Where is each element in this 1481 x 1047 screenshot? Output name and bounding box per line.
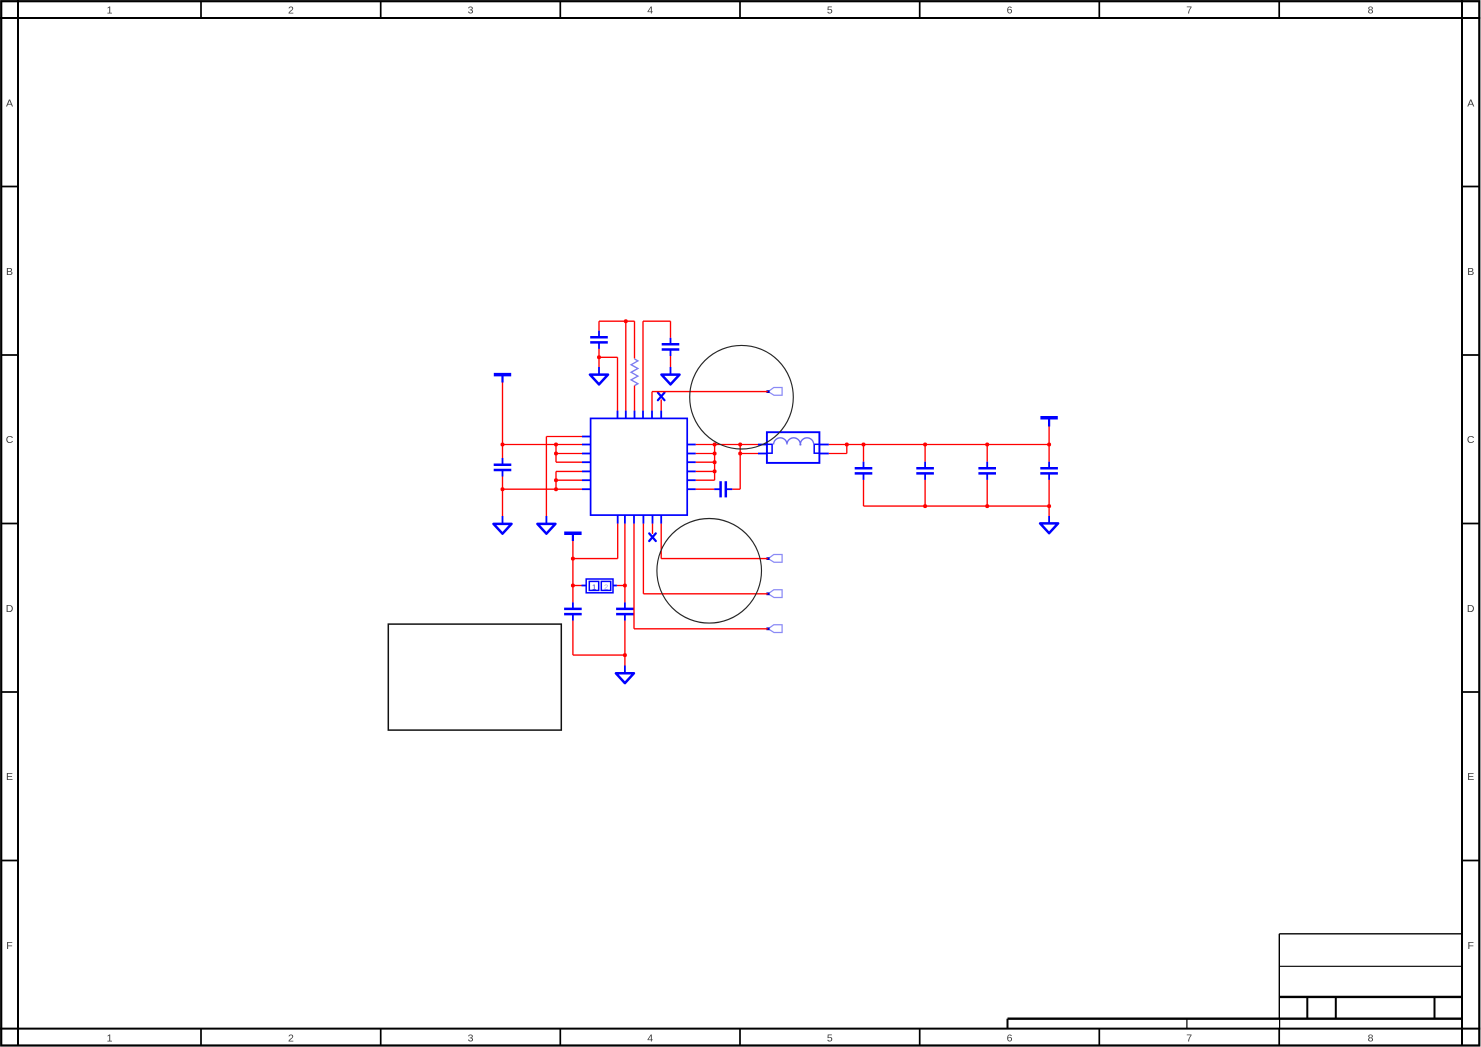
svg-text:B: B <box>1467 266 1474 278</box>
svg-text:3: 3 <box>468 1032 474 1044</box>
svg-text:2: 2 <box>288 5 294 17</box>
svg-text:D: D <box>6 603 14 615</box>
svg-text:E: E <box>6 771 13 783</box>
svg-text:E: E <box>1467 771 1474 783</box>
svg-text:7: 7 <box>1186 5 1192 17</box>
svg-text:1: 1 <box>592 582 596 591</box>
svg-text:C: C <box>1467 434 1475 446</box>
svg-text:2: 2 <box>288 1032 294 1044</box>
svg-text:5: 5 <box>827 1032 833 1044</box>
svg-text:F: F <box>6 940 12 952</box>
svg-text:8: 8 <box>1368 5 1374 17</box>
svg-text:6: 6 <box>1007 1032 1013 1044</box>
svg-text:F: F <box>1467 940 1473 952</box>
svg-text:2: 2 <box>604 582 608 591</box>
svg-text:8: 8 <box>1368 1032 1374 1044</box>
svg-text:3: 3 <box>468 5 474 17</box>
svg-text:1: 1 <box>107 1032 113 1044</box>
svg-text:B: B <box>6 266 13 278</box>
svg-text:6: 6 <box>1007 5 1013 17</box>
svg-text:5: 5 <box>827 5 833 17</box>
svg-text:D: D <box>1467 603 1475 615</box>
svg-text:1: 1 <box>107 5 113 17</box>
svg-text:7: 7 <box>1186 1032 1192 1044</box>
svg-text:4: 4 <box>647 1032 653 1044</box>
svg-text:C: C <box>6 434 14 446</box>
svg-text:A: A <box>6 97 13 109</box>
svg-text:4: 4 <box>647 5 653 17</box>
svg-text:A: A <box>1467 97 1474 109</box>
